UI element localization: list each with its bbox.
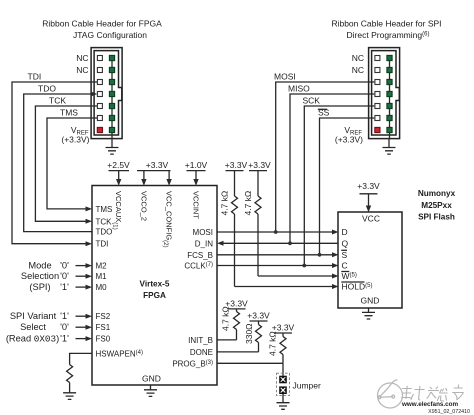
svg-text:MISO: MISO (288, 84, 310, 94)
svg-text:D_IN: D_IN (195, 239, 213, 248)
svg-text:Selection: Selection (21, 271, 59, 281)
svg-text:'0': '0' (60, 261, 69, 271)
svg-text:NC: NC (352, 53, 364, 63)
svg-text:TDI: TDI (28, 72, 42, 82)
svg-text:M0: M0 (96, 283, 108, 292)
svg-text:M2: M2 (96, 262, 108, 271)
svg-text:+3.3V: +3.3V (247, 311, 270, 321)
svg-text:Virtex-5: Virtex-5 (140, 280, 170, 289)
svg-text:'1': '1' (60, 311, 69, 321)
svg-text:GND: GND (361, 296, 380, 306)
svg-text:Direct Programming(6): Direct Programming(6) (347, 30, 430, 40)
svg-text:'0': '0' (60, 271, 69, 281)
svg-text:VCCINT: VCCINT (192, 191, 201, 219)
svg-text:4.7 kΩ: 4.7 kΩ (268, 331, 278, 356)
svg-text:'1': '1' (60, 334, 69, 344)
svg-text:GND: GND (142, 374, 161, 384)
svg-text:Numonyx: Numonyx (418, 189, 456, 198)
svg-text:S: S (342, 250, 348, 260)
svg-text:+3.3V: +3.3V (357, 181, 380, 191)
svg-text:TMS: TMS (96, 205, 113, 214)
svg-text:FPGA: FPGA (143, 291, 166, 300)
svg-text:4.7 kΩ: 4.7 kΩ (220, 191, 230, 216)
svg-text:TDO: TDO (96, 228, 113, 237)
svg-text:(+3.3V): (+3.3V) (61, 135, 89, 145)
svg-text:DONE: DONE (190, 348, 213, 357)
svg-text:FS0: FS0 (96, 335, 111, 344)
svg-text:Mode: Mode (28, 261, 51, 271)
svg-text:SPI Variant: SPI Variant (10, 311, 57, 321)
svg-text:+2.5V: +2.5V (107, 160, 130, 170)
svg-text:+3.3V: +3.3V (248, 160, 271, 170)
svg-text:+1.0V: +1.0V (185, 160, 208, 170)
svg-text:4.7 kΩ: 4.7 kΩ (221, 306, 231, 331)
svg-text:TCK: TCK (96, 217, 113, 226)
svg-text:X951_02_072410: X951_02_072410 (428, 409, 470, 415)
svg-text:TDO: TDO (38, 84, 56, 94)
svg-text:FS1: FS1 (96, 323, 111, 332)
svg-text:JTAG Configuration: JTAG Configuration (73, 30, 147, 40)
svg-text:M25Pxx: M25Pxx (421, 201, 452, 210)
svg-text:Select: Select (20, 322, 46, 332)
svg-text:+3.3V: +3.3V (272, 323, 295, 333)
svg-text:VCC: VCC (362, 214, 380, 224)
svg-text:TMS: TMS (60, 108, 78, 118)
svg-text:330Ω: 330Ω (244, 323, 254, 344)
svg-text:SCK: SCK (303, 96, 321, 106)
svg-text:FS2: FS2 (96, 312, 111, 321)
svg-text:MOSI: MOSI (193, 228, 213, 237)
svg-text:+3.3V: +3.3V (225, 160, 248, 170)
svg-text:NC: NC (352, 65, 364, 75)
svg-text:www.elecfans.com: www.elecfans.com (401, 401, 459, 408)
svg-text:C: C (342, 261, 348, 271)
svg-text:VCCO_2: VCCO_2 (139, 191, 148, 221)
svg-text:(Read 0X03): (Read 0X03) (6, 334, 59, 345)
svg-text:D: D (342, 227, 348, 237)
svg-text:TDI: TDI (96, 240, 109, 249)
svg-text:M1: M1 (96, 272, 108, 281)
svg-text:(SPI): (SPI) (29, 282, 50, 292)
svg-text:Ribbon Cable Header for SPI: Ribbon Cable Header for SPI (331, 19, 441, 29)
svg-text:TCK: TCK (49, 96, 66, 106)
svg-text:4.7 kΩ: 4.7 kΩ (243, 191, 253, 216)
svg-text:(+3.3V): (+3.3V) (335, 135, 363, 145)
svg-text:FCS_B: FCS_B (187, 251, 213, 260)
svg-text:Ribbon Cable Header for FPGA: Ribbon Cable Header for FPGA (42, 19, 162, 29)
svg-text:NC: NC (76, 65, 88, 75)
svg-text:NC: NC (76, 53, 88, 63)
svg-text:SPI Flash: SPI Flash (418, 213, 455, 222)
svg-text:'1': '1' (60, 282, 69, 292)
svg-text:'0': '0' (60, 322, 69, 332)
svg-text:+3.3V: +3.3V (146, 160, 169, 170)
svg-text:Q: Q (342, 238, 349, 248)
svg-text:Jumper: Jumper (293, 381, 322, 391)
svg-text:MOSI: MOSI (274, 72, 296, 82)
svg-text:INIT_B: INIT_B (188, 336, 213, 345)
